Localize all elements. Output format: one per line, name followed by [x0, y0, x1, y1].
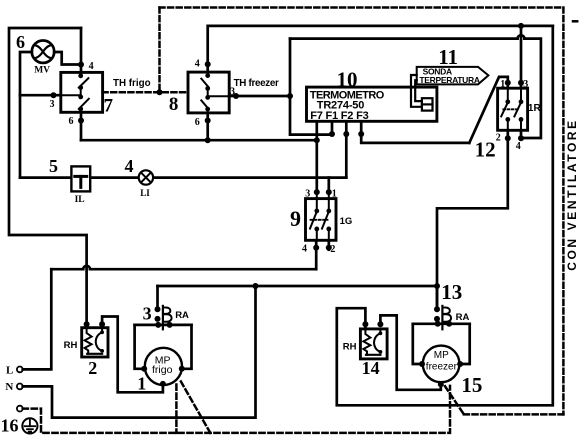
node RH frigo right terminal: [99, 321, 105, 327]
junction node riser/terminal-3 wire: [287, 93, 293, 99]
svg-text:IL: IL: [75, 195, 85, 205]
node 1 of switch 9: [326, 189, 332, 195]
svg-text:1: 1: [332, 189, 337, 200]
svg-text:8: 8: [169, 94, 179, 115]
node RA frigo bottom right: [167, 322, 173, 328]
wire TH frigo terminal 6 down to bus: [80, 112, 83, 140]
wire F3 down and right to 1R terminal 1 diagonal: [361, 121, 469, 143]
wire 1R terminal 3 riser to top bus: [520, 26, 523, 88]
svg-text:TH frigo: TH frigo: [113, 78, 151, 89]
svg-text:RH: RH: [343, 341, 357, 352]
heater element zigzag inside RH 14: [363, 329, 370, 355]
svg-text:3: 3: [143, 303, 152, 323]
dashed earth wire from terminal: [23, 386, 450, 433]
node motor freezer bottom: [438, 381, 444, 387]
wire 1R terminal 2 down-left to freezer RA feed: [437, 130, 508, 309]
relay switch box 12 (1R): [498, 88, 528, 130]
svg-text:4: 4: [195, 59, 200, 70]
svg-text:CON VENTILATORE: CON VENTILATORE: [565, 118, 579, 271]
lamp LI: [139, 170, 153, 184]
svg-text:TERPERATURA: TERPERATURA: [419, 75, 479, 85]
node RH frigo left terminal: [84, 321, 90, 327]
svg-text:F7 F1 F2 F3: F7 F1 F2 F3: [310, 110, 368, 122]
wire lamp MV right side to node 4: [54, 52, 81, 65]
wire TH freezer terminal 3 to thermometer riser: [229, 95, 290, 98]
probe connector block: [422, 98, 433, 110]
svg-text:9: 9: [290, 206, 301, 231]
node 3 of TH frigo: [51, 92, 57, 98]
node 3 of switch 9: [314, 189, 320, 195]
wire N to bus B riser: [23, 286, 256, 418]
heater relay box RH 14: [360, 329, 387, 359]
svg-text:4: 4: [125, 156, 134, 176]
switch contacts inside 1R: [501, 88, 523, 130]
svg-text:MV: MV: [34, 66, 50, 76]
svg-text:6: 6: [195, 117, 200, 128]
svg-text:1G: 1G: [340, 216, 353, 227]
wire bus2 from riser to 1R terminal 4 leg (with hop): [290, 37, 518, 40]
svg-text:3: 3: [305, 189, 310, 200]
stray mark top right: [573, 20, 577, 23]
starter curve inside RH 14: [374, 329, 380, 352]
node 2 of 1R: [505, 135, 511, 141]
svg-text:4: 4: [89, 61, 94, 72]
node motor frigo right: [179, 366, 185, 372]
svg-text:freezer: freezer: [426, 362, 458, 373]
svg-text:2: 2: [88, 358, 97, 378]
wire hop over RH riser: [83, 266, 90, 269]
node RH freezer left terminal: [362, 321, 368, 327]
dashed earth riser to motor frigo: [175, 385, 178, 433]
svg-text:6: 6: [69, 116, 74, 127]
svg-text:14: 14: [362, 358, 380, 378]
wire hop over 1R terminal 3 wire: [518, 35, 525, 38]
wire bus B from RA frigo feed to freezer RA feed: [158, 285, 438, 288]
svg-text:12: 12: [475, 138, 496, 162]
overload protector RA frigo: [155, 306, 172, 329]
wire bus terminal-6 to F7: [81, 139, 317, 142]
wire switch 9 terminal 2 stub: [327, 240, 330, 249]
thermostat TH frigo box 7: [61, 72, 103, 112]
switch box 9 (1G): [306, 199, 337, 241]
node 3 of TH freezer: [233, 93, 239, 99]
wire F2 down to lamp line: [345, 121, 348, 177]
node 6 of TH freezer: [205, 118, 211, 124]
svg-text:LI: LI: [140, 188, 150, 198]
wire F7 down to switch 9 terminal 3: [315, 121, 318, 192]
wire F1 stub: [331, 121, 334, 134]
dashed border bottom to freezer motor: [464, 413, 564, 416]
node 1 of 1R: [505, 80, 511, 86]
motor MP freezer: [423, 346, 460, 383]
node motor frigo bottom: [160, 381, 166, 387]
wire probe inner lead: [415, 80, 422, 101]
svg-text:3: 3: [50, 99, 55, 110]
node 4 of TH frigo: [78, 62, 84, 68]
switch contacts inside TH freezer: [201, 72, 229, 113]
svg-text:1: 1: [137, 374, 146, 394]
node 4 of 1R: [518, 135, 524, 141]
svg-text:N: N: [5, 381, 13, 393]
bottom bar inside RH 14: [366, 354, 380, 356]
svg-text:16: 16: [1, 416, 19, 436]
wire motor frigo bottom to RH right terminal: [102, 317, 163, 393]
wire big loop right side: [337, 26, 553, 405]
node RA freezer bottom right: [446, 321, 452, 327]
junction node bus at TH freezer 6: [205, 137, 211, 143]
dashed mechanical link TH frigo to TH freezer: [103, 91, 188, 94]
heater relay box RH 2: [82, 328, 108, 357]
wire bus B corner down to RA frigo: [156, 286, 159, 309]
wire bus A from L riser to switch 9 terminal 4 (hop at RH riser): [51, 268, 83, 271]
node RA freezer bottom left: [435, 321, 441, 327]
svg-text:2: 2: [330, 244, 335, 255]
wire TH freezer terminal 4 up to top bus: [208, 26, 553, 72]
thermostat TH freezer box 8: [188, 72, 229, 113]
svg-text:11: 11: [438, 45, 458, 69]
svg-text:1R: 1R: [528, 103, 542, 114]
node on dashed link: [157, 89, 163, 95]
wire freezer RA feed continues to RA 13 top: [436, 286, 439, 309]
dashed earth diagonal to motor frigo: [181, 382, 210, 433]
svg-text:frigo: frigo: [152, 364, 173, 376]
svg-text:2: 2: [496, 133, 501, 144]
starter curve inside RH 2: [96, 328, 102, 351]
wire 1R terminal 4 stub: [520, 130, 523, 138]
node motor freezer left: [419, 361, 425, 367]
wire probe outer lead: [411, 75, 422, 107]
heater element zigzag inside RH 2: [85, 328, 92, 354]
wire terminal 3 of TH frigo: [20, 94, 61, 97]
dashed border left drop: [158, 8, 161, 93]
junction node bus B / N riser: [253, 283, 259, 289]
probe pennant SONDA TERPERATURA: [417, 67, 489, 85]
wire from lamp line down to switch 9 terminal 1: [327, 178, 330, 193]
wire motor loop right leg (frigo): [182, 325, 192, 369]
wire motor loop top (frigo): [135, 324, 192, 327]
svg-text:4: 4: [302, 243, 307, 254]
svg-text:4: 4: [516, 141, 521, 152]
dashed border top: [160, 6, 564, 9]
svg-text:15: 15: [461, 373, 482, 397]
svg-text:7: 7: [104, 96, 114, 117]
earth terminal circle: [17, 406, 23, 412]
overload protector RA freezer 13: [434, 306, 451, 329]
svg-text:MP: MP: [434, 350, 449, 361]
bottom bar inside RH 2: [87, 353, 102, 355]
node motor freezer right: [457, 361, 463, 367]
node 4 of TH freezer: [205, 61, 211, 67]
fuse IL box 5: [71, 166, 90, 191]
wire L to bus A riser: [23, 269, 52, 369]
dashed border right: [562, 8, 565, 415]
node 4 of switch 9: [313, 245, 319, 251]
svg-text:5: 5: [49, 156, 58, 176]
wire motor loop left leg (freezer): [413, 324, 422, 364]
wire diagonal from F3 run to 1R terminal 1: [469, 77, 508, 143]
wire top-left loop from node 4 to heater RH branch: [9, 28, 87, 324]
svg-text:RA: RA: [456, 312, 470, 323]
lamp MV circle: [32, 41, 54, 63]
svg-text:13: 13: [441, 280, 462, 304]
wire motor loop left leg (frigo): [135, 325, 145, 369]
wire motor loop top (freezer): [413, 322, 470, 325]
switch contacts inside TH frigo: [61, 72, 89, 112]
svg-text:3: 3: [230, 86, 235, 97]
node RA frigo bottom left: [155, 322, 161, 328]
wire motor loop right leg (freezer): [460, 324, 470, 364]
node 6 of TH frigo: [78, 118, 84, 124]
wire switch 9 terminal 4 to bus A: [315, 240, 318, 269]
wire vertical into TH frigo terminal 4: [80, 28, 83, 72]
wire riser from TH freezer 3 up to bus2 and down to F1: [290, 39, 332, 135]
node top bus / 1R terminal 3: [518, 23, 524, 29]
node RH freezer right terminal: [377, 321, 383, 327]
svg-text:TH freezer: TH freezer: [234, 78, 279, 89]
junction node bus B / freezer RA feed: [434, 283, 440, 289]
wire TH freezer terminal 6 down to bus: [206, 113, 209, 140]
thermometer box 10 TERMOMETRO: [307, 87, 437, 121]
svg-text:L: L: [6, 364, 13, 376]
svg-text:6: 6: [16, 32, 25, 52]
switch contacts inside box 9: [310, 192, 331, 240]
node 2 of switch 9: [326, 245, 332, 251]
node 3 of 1R: [518, 80, 524, 86]
node motor frigo left: [141, 366, 147, 372]
wire lamp MV left side down to IL: [20, 52, 32, 178]
node F1: [329, 131, 335, 137]
earth symbol: [22, 418, 37, 433]
junction node F7/bus: [314, 137, 320, 143]
wire motor freezer bottom to RH 14 right terminal: [380, 315, 440, 389]
node F3: [358, 131, 364, 137]
svg-text:RA: RA: [175, 310, 189, 321]
wire lamp line IL-LI: [20, 176, 346, 179]
motor MP frigo: [145, 348, 182, 385]
dashed earth diagonal from motor freezer to border: [445, 386, 464, 414]
node F2: [343, 131, 349, 137]
svg-text:RH: RH: [64, 340, 78, 351]
